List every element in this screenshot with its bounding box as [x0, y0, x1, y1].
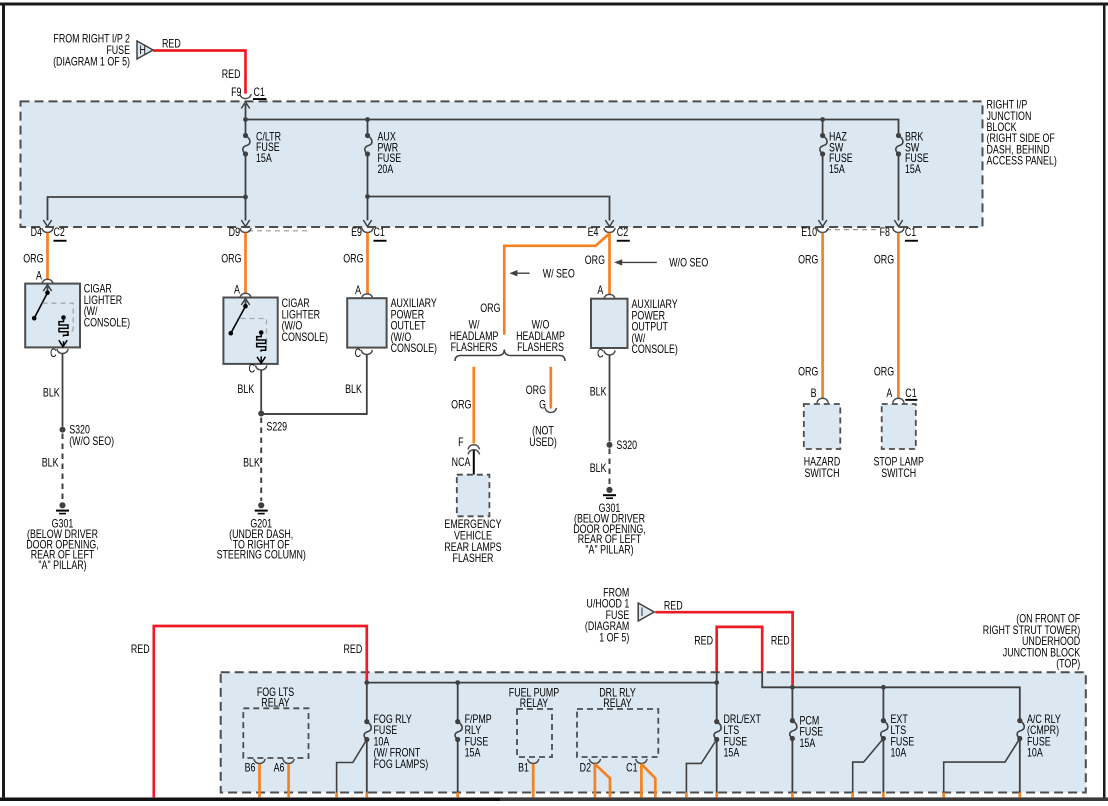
- wire ORG w/o headlamp flashers branch (not used): [526, 367, 557, 449]
- fuse AUX PWR FUSE 20A: [365, 120, 401, 177]
- svg-text:RED: RED: [344, 644, 363, 656]
- svg-text:C: C: [50, 348, 57, 360]
- svg-text:CONSOLE): CONSOLE): [391, 343, 437, 355]
- svg-text:CONSOLE): CONSOLE): [632, 344, 678, 356]
- svg-text:USED): USED): [529, 437, 557, 449]
- svg-text:RED: RED: [694, 636, 713, 648]
- junction block: RIGHT I/P JUNCTION BLOCK: [21, 100, 1057, 227]
- connector D4 / C2: [31, 227, 67, 242]
- fuse C/LTR FUSE 15A: [243, 120, 281, 166]
- svg-text:STOP LAMP: STOP LAMP: [873, 457, 924, 469]
- svg-text:E10: E10: [801, 227, 817, 239]
- svg-text:C1: C1: [905, 227, 917, 239]
- connector pin D2 of drl relay: [580, 759, 601, 775]
- label W/ HEADLAMP FLASHERS: [450, 320, 499, 355]
- wire RED from I feed to PCM bus node: [655, 601, 792, 685]
- fuse HAZ SW FUSE 15A: [820, 120, 853, 177]
- component: EMERGENCY VEHICLE REAR LAMPS FLASHER: [444, 475, 501, 566]
- wire EXT LTS fuse straight exit: [882, 739, 884, 798]
- ground G301 (right): [573, 487, 645, 557]
- svg-text:C1: C1: [254, 87, 266, 99]
- fuse EXT LTS FUSE 10A: [881, 687, 915, 760]
- svg-text:E9: E9: [351, 227, 362, 239]
- svg-text:E4: E4: [588, 227, 599, 239]
- bus wire right segment in underhood block: [762, 672, 1020, 721]
- wire BLK (dashed) S320 to G301: [42, 434, 63, 502]
- wire ORG w/ headlamp flashers branch to F: [451, 367, 474, 444]
- svg-text:BLK: BLK: [590, 387, 607, 399]
- connector pin A of aux power output (w/ console): [597, 285, 615, 299]
- svg-text:D4: D4: [31, 227, 43, 239]
- wire ORG from E10 to hazard switch pin B: [798, 233, 828, 403]
- svg-text:C: C: [597, 349, 604, 361]
- svg-text:F9: F9: [231, 87, 242, 99]
- svg-text:ORG: ORG: [585, 255, 605, 267]
- svg-text:15A: 15A: [256, 153, 272, 165]
- wire from BRK SW fuse to F8 exit: [894, 154, 902, 227]
- connector pin C of aux power output (w/ console): [597, 349, 615, 361]
- splice S320 (right): [607, 440, 638, 452]
- junction block connector face lines: [248, 230, 876, 231]
- svg-text:ORG: ORG: [798, 367, 818, 379]
- svg-text:FLASHERS: FLASHERS: [517, 342, 564, 354]
- component: AUXILIARY POWER OUTPUT (W/ CONSOLE): [591, 299, 678, 357]
- bus wire inside I/P junction block: [243, 117, 898, 135]
- wire ORG from B6 down: [258, 764, 261, 797]
- svg-text:ORG: ORG: [451, 400, 471, 412]
- svg-text:SWITCH: SWITCH: [881, 468, 916, 480]
- wire A/C RLY fuse straight exit: [1019, 739, 1021, 798]
- svg-text:C2: C2: [54, 227, 66, 239]
- svg-text:15A: 15A: [465, 748, 481, 760]
- svg-text:ACCESS PANEL): ACCESS PANEL): [987, 155, 1057, 167]
- svg-text:CONSOLE): CONSOLE): [282, 332, 328, 344]
- svg-text:I: I: [641, 607, 643, 619]
- wire from HAZ SW fuse to E10 exit: [818, 154, 826, 227]
- ground G301 (left): [26, 502, 98, 572]
- wire BLK auxiliary power outlet to S229: [261, 355, 367, 415]
- component: HAZARD SWITCH: [804, 404, 841, 480]
- off-page feed H: FROM RIGHT I/P 2 FUSE (DIAGRAM 1 OF 5): [53, 34, 153, 69]
- svg-text:A: A: [234, 284, 240, 296]
- svg-text:H: H: [140, 45, 146, 57]
- svg-text:BLK: BLK: [43, 387, 60, 399]
- svg-text:RELAY: RELAY: [261, 697, 290, 709]
- wire ORG from A6 down: [287, 764, 290, 797]
- connector pin C1 of drl relay: [626, 759, 647, 775]
- svg-text:(TOP): (TOP): [1056, 659, 1080, 671]
- wire RED from H feed to F9: [153, 39, 246, 94]
- svg-text:W/O SEO: W/O SEO: [669, 258, 708, 270]
- svg-text:B: B: [811, 388, 817, 400]
- component: FUEL PUMP RELAY: [509, 688, 560, 757]
- svg-text:C1: C1: [905, 388, 917, 400]
- wire DRL/EXT fuse straight exit: [716, 740, 718, 798]
- label arrow W/O SEO: [614, 258, 708, 270]
- svg-text:F8: F8: [880, 227, 891, 239]
- svg-text:RED: RED: [162, 39, 181, 51]
- wire ORG from F8 to stop lamp switch pin A: [874, 233, 917, 403]
- wire ORG from E9 to auxiliary power outlet pin A: [343, 233, 373, 299]
- svg-text:10A: 10A: [1027, 748, 1043, 760]
- svg-text:F: F: [458, 437, 463, 449]
- svg-text:G: G: [539, 400, 546, 412]
- wire ORG from D9 to cigar lighter (w/o console) pin A: [221, 233, 251, 298]
- svg-text:ORG: ORG: [874, 255, 894, 267]
- svg-text:ORG: ORG: [343, 254, 363, 266]
- svg-text:C: C: [355, 348, 362, 360]
- svg-text:D2: D2: [580, 762, 592, 774]
- svg-text:BLK: BLK: [42, 457, 59, 469]
- svg-text:S320: S320: [616, 440, 637, 452]
- wire DRL/EXT fuse branch exit: [686, 740, 716, 798]
- wire ORG from B1 down: [532, 764, 535, 797]
- wire ORG from E4 to aux power output and headlamp-flasher split: [480, 233, 609, 335]
- wire BLK (dashed) S229 to G201: [243, 418, 261, 502]
- off-page feed I: FROM U/HOOD 1 FUSE (DIAGRAM 1 OF 5): [585, 588, 654, 645]
- label W/O HEADLAMP FLASHERS: [516, 320, 565, 355]
- svg-text:RED: RED: [222, 69, 241, 81]
- component: FOG LTS RELAY: [243, 687, 308, 758]
- svg-text:15A: 15A: [800, 738, 816, 750]
- wire BLK cigar lighter (w/o console) to S229: [237, 370, 261, 411]
- svg-text:CONSOLE): CONSOLE): [84, 317, 130, 329]
- component: CIGAR LIGHTER (W/O CONSOLE): [223, 298, 328, 364]
- svg-text:BLK: BLK: [590, 463, 607, 475]
- svg-text:C2: C2: [617, 227, 629, 239]
- connector pin A6 of fog lts relay: [274, 759, 295, 775]
- svg-text:C: C: [249, 364, 256, 376]
- svg-text:RELAY: RELAY: [520, 698, 549, 710]
- fuse FOG RLY FUSE 10A (W/ FRONT FOG LAMPS): [364, 683, 428, 772]
- wire from AUX PWR fuse to E9 and E4 exits: [363, 154, 613, 227]
- svg-text:15A: 15A: [905, 164, 921, 176]
- svg-text:15A: 15A: [829, 164, 845, 176]
- wire F/PMP fuse exit: [457, 740, 459, 798]
- svg-text:ORG: ORG: [526, 385, 546, 397]
- svg-text:A: A: [886, 388, 892, 400]
- svg-text:FLASHERS: FLASHERS: [451, 342, 498, 354]
- svg-text:BLK: BLK: [345, 384, 362, 396]
- wire FOG RLY fuse branch exit: [337, 740, 367, 798]
- svg-text:S229: S229: [266, 422, 287, 434]
- wire BLK (dashed) S320 to G301 (right): [590, 449, 610, 486]
- svg-text:20A: 20A: [378, 164, 394, 176]
- wire A/C RLY fuse branch exit: [944, 739, 1020, 798]
- svg-text:ORG: ORG: [874, 367, 894, 379]
- svg-text:(W/O SEO): (W/O SEO): [69, 436, 114, 448]
- fuse DRL/EXT LTS FUSE 15A: [714, 683, 762, 760]
- connector pin C of cigar lighter (w/ console): [50, 348, 68, 360]
- svg-text:RELAY: RELAY: [603, 698, 632, 710]
- wire BLK aux power output to S320: [590, 355, 610, 442]
- svg-text:ORG: ORG: [221, 254, 241, 266]
- bus wire left segment in underhood block: [364, 672, 719, 685]
- splice S229 and wire to aux power outlet BLK: [258, 411, 367, 434]
- splice S320 (W/O SEO): [60, 425, 115, 449]
- svg-text:A: A: [597, 285, 603, 297]
- svg-text:BLK: BLK: [237, 384, 254, 396]
- svg-text:W/ SEO: W/ SEO: [543, 268, 575, 280]
- svg-text:BLK: BLK: [243, 457, 260, 469]
- wire PCM fuse exit: [791, 739, 793, 798]
- svg-text:ORG: ORG: [798, 255, 818, 267]
- wires ORG from D2 down: [595, 764, 610, 797]
- component: STOP LAMP SWITCH: [873, 404, 924, 480]
- wire ORG from D4 to cigar lighter (w/ console) pin A: [23, 233, 53, 284]
- svg-text:A: A: [355, 285, 361, 297]
- fuse BRK SW FUSE 15A: [896, 131, 929, 176]
- fuse A/C RLY (CMPR) FUSE 10A: [1017, 714, 1061, 760]
- wire RED left feed into underhood block: [131, 626, 367, 797]
- svg-text:(DIAGRAM 1 OF 5): (DIAGRAM 1 OF 5): [53, 56, 130, 68]
- brace for headlamp flasher split: [455, 350, 565, 362]
- label arrow W/ SEO: [509, 268, 574, 280]
- wire from C/LTR fuse to D4 and D9 exits: [43, 154, 249, 227]
- connector pin B1 of fuel pump relay: [518, 759, 539, 775]
- wires ORG from C1 down: [641, 764, 655, 797]
- svg-text:10A: 10A: [891, 748, 907, 760]
- wire EXT LTS fuse branch exit: [853, 739, 884, 798]
- svg-text:1 OF 5): 1 OF 5): [599, 632, 629, 644]
- svg-text:15A: 15A: [724, 748, 740, 760]
- ground G201: [217, 502, 306, 562]
- svg-text:STEERING COLUMN): STEERING COLUMN): [217, 550, 306, 562]
- connector pin B6 of fog lts relay: [245, 759, 266, 775]
- component: AUXILIARY POWER OUTLET (W/O CONSOLE): [347, 298, 437, 356]
- connector F / NCA to emergency flasher: [452, 437, 480, 475]
- svg-text:"A" PILLAR): "A" PILLAR): [38, 560, 86, 572]
- connector pin C of auxiliary power outlet: [355, 348, 373, 360]
- wire RED jumper over underhood block: [694, 627, 789, 672]
- svg-text:RED: RED: [664, 601, 683, 613]
- connector F8 / C1: [880, 227, 918, 242]
- svg-text:"A" PILLAR): "A" PILLAR): [585, 545, 633, 557]
- svg-text:B1: B1: [518, 762, 529, 774]
- connector F9 / C1 into I/P junction block: [231, 87, 266, 120]
- component: DRL RLY RELAY: [577, 688, 658, 757]
- connector E4 / C2: [588, 227, 630, 242]
- svg-text:A6: A6: [274, 762, 285, 774]
- svg-text:A: A: [36, 270, 42, 282]
- connector pin C of cigar lighter (w/o console): [249, 364, 267, 376]
- svg-text:SWITCH: SWITCH: [804, 468, 839, 480]
- svg-text:ORG: ORG: [480, 303, 500, 315]
- connector D9: [229, 227, 252, 239]
- svg-text:RED: RED: [131, 644, 150, 656]
- fuse PCM FUSE 15A: [790, 687, 824, 750]
- svg-text:RED: RED: [771, 636, 790, 648]
- svg-text:FLASHER: FLASHER: [453, 553, 494, 565]
- svg-text:B6: B6: [245, 762, 256, 774]
- svg-text:HAZARD: HAZARD: [804, 457, 840, 469]
- wire FOG RLY fuse straight exit: [366, 740, 368, 798]
- svg-text:FOG LAMPS): FOG LAMPS): [374, 759, 429, 771]
- connector E10: [801, 227, 828, 239]
- svg-text:NCA: NCA: [452, 457, 471, 469]
- svg-text:D9: D9: [229, 227, 241, 239]
- fuse F/PMP RLY FUSE 15A: [455, 683, 492, 760]
- wire BLK cigar lighter (w/ console) to S320: [43, 354, 63, 427]
- svg-text:ORG: ORG: [23, 254, 43, 266]
- junction block: UNDERHOOD JUNCTION BLOCK (TOP): [221, 614, 1086, 793]
- connector E9 / C1: [351, 227, 386, 242]
- svg-text:C1: C1: [374, 227, 386, 239]
- component: CIGAR LIGHTER (W/ CONSOLE): [25, 284, 130, 348]
- svg-text:C1: C1: [626, 762, 638, 774]
